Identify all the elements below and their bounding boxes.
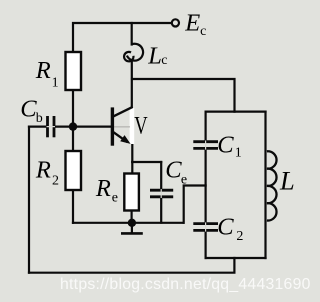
choke Lc loop [124, 44, 143, 62]
svg-text:https://blog.csdn.net/qq_44431: https://blog.csdn.net/qq_44431690 [60, 276, 311, 293]
wire tank mid tap to lower rail [184, 186, 206, 223]
svg-text:b: b [36, 111, 43, 126]
svg-text:L: L [279, 165, 295, 195]
wire tank top [206, 110, 266, 112]
wire base lead [73, 125, 111, 127]
transistor V white strip [130, 108, 135, 144]
transistor V emitter arrow [120, 135, 130, 144]
svg-text:R: R [95, 175, 111, 202]
svg-text:C: C [165, 157, 182, 184]
wire tank left above C1 [205, 112, 207, 142]
wire lower emitter rail [73, 222, 183, 224]
resistor Re [124, 174, 139, 211]
svg-text:e: e [181, 173, 187, 188]
wire Re bottom [131, 211, 133, 223]
resistor R2 [66, 151, 82, 190]
node base junction dot [69, 122, 77, 130]
terminal Ec circle [172, 19, 179, 26]
capacitor C2 plates [193, 224, 218, 231]
wire Ce bottom lead [160, 197, 162, 223]
capacitor Cb white notch [47, 126, 56, 128]
inductor L coil [267, 151, 277, 220]
svg-text:R: R [35, 57, 51, 84]
svg-text:2: 2 [236, 229, 243, 244]
wire Cb left lead [29, 125, 47, 127]
wire R2 bottom to lower rail [72, 190, 74, 223]
capacitor C1 white notch [205, 141, 207, 150]
wire Cb right lead to base node [55, 125, 74, 127]
svg-text:C: C [217, 214, 234, 241]
capacitor C1 plates [193, 142, 218, 149]
wire tank left below C2 [205, 231, 207, 258]
svg-text:1: 1 [52, 75, 59, 90]
node emitter rail dot [128, 219, 136, 227]
ground [121, 223, 143, 234]
wire top rail with left corner down to R1 [73, 23, 171, 52]
wire base node to R2 top [72, 127, 74, 151]
wire tank bottom [206, 257, 266, 259]
capacitor Ce white notch [160, 189, 162, 198]
capacitor C2 white notch [205, 222, 207, 231]
wire emitter branch to Ce [132, 161, 161, 163]
wire tank right vertical [264, 112, 266, 258]
wire collector vertical below Lc [131, 61, 133, 107]
capacitor Ce plates [150, 190, 173, 197]
wire Ce top lead [160, 162, 162, 190]
svg-text:2: 2 [52, 173, 59, 188]
wire bottom rail to tank bottom [29, 258, 234, 273]
svg-text:1: 1 [235, 146, 242, 161]
svg-text:E: E [184, 9, 200, 36]
svg-text:C: C [217, 132, 234, 159]
wire R1 bottom to base node [72, 90, 74, 127]
transistor V [112, 107, 133, 146]
svg-text:L: L [147, 42, 162, 69]
wire emitter to Re [131, 162, 133, 174]
transistor V faint base line [113, 126, 130, 128]
svg-text:c: c [200, 24, 206, 39]
wire collector branch to tank [132, 79, 235, 112]
svg-text:V: V [134, 111, 148, 140]
wire Lc top to rail [131, 23, 133, 45]
capacitor Cb plates [48, 116, 55, 137]
svg-text:e: e [112, 191, 118, 206]
wire left outer branch [28, 127, 30, 273]
svg-text:R: R [35, 157, 51, 184]
wire emitter vertical [131, 144, 133, 162]
svg-text:c: c [161, 53, 167, 68]
wire tank left C1 to C2 [205, 149, 207, 224]
resistor R1 [66, 52, 82, 90]
